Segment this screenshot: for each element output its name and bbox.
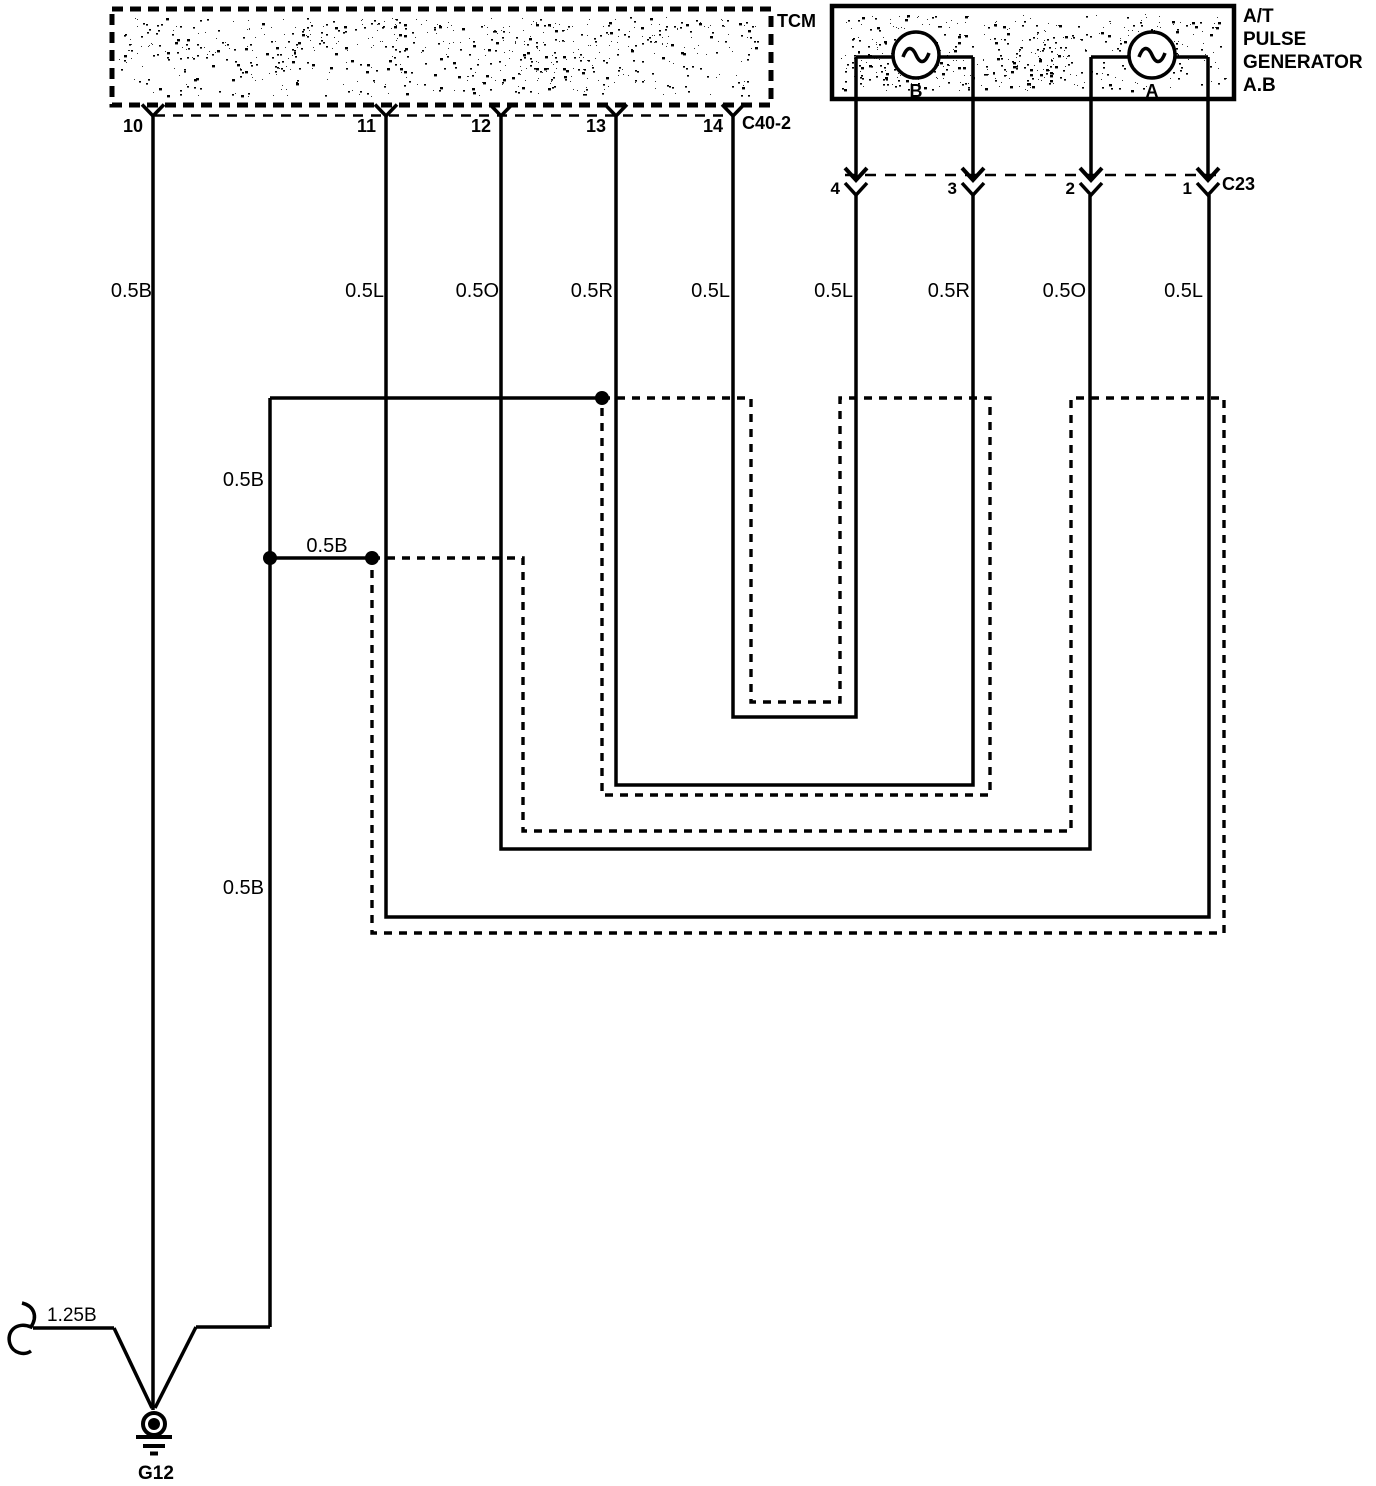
svg-text:14: 14 [703, 116, 723, 136]
TCM control module box [119, 17, 759, 97]
wire 1.25B horizontal [33, 1326, 114, 1330]
connector C40-2 line [155, 114, 731, 117]
wire shield link 0.5B [268, 556, 372, 560]
wire shield bus horizontal 0.5B [270, 396, 602, 400]
wire shield ground vertical 0.5B [268, 558, 272, 1327]
pin 11 of connector C40-2 [375, 105, 397, 117]
svg-text:A: A [1146, 81, 1159, 101]
svg-text:C23: C23 [1222, 174, 1255, 194]
wire continuation squiggle [9, 1303, 34, 1353]
pin 12 of connector C40-2 [490, 105, 512, 117]
wire pin14 to pulse generator pin4 0.5L [733, 116, 856, 717]
wire pin11 to pulse generator pin1 0.5L [386, 116, 1209, 917]
connector C23 line [845, 174, 1218, 177]
svg-text:0.5L: 0.5L [691, 280, 730, 302]
pin 10 of connector C40-2 [142, 105, 164, 117]
svg-text:0.5L: 0.5L [1164, 280, 1203, 302]
pin 14 of connector C40-2 [722, 105, 744, 117]
svg-text:0.5B: 0.5B [223, 469, 264, 491]
svg-text:0.5R: 0.5R [928, 280, 970, 302]
junction node shield left [263, 551, 277, 565]
wire B right lead horizontal [939, 55, 973, 59]
ground G12 [143, 1413, 165, 1435]
wire pin10 0.5B to ground [151, 116, 155, 1410]
svg-text:13: 13 [586, 116, 606, 136]
wire B right lead vertical [971, 57, 975, 180]
pin 2 of connector C23 [1080, 168, 1102, 180]
svg-text:2: 2 [1066, 179, 1075, 198]
svg-text:G12: G12 [138, 1463, 174, 1484]
svg-text:0.5B: 0.5B [306, 535, 347, 557]
svg-text:0.5L: 0.5L [345, 280, 384, 302]
wire pin13 to pulse generator pin3 0.5R [616, 116, 973, 785]
wire A right lead horizontal [1175, 55, 1208, 59]
wire shield ground horizontal [196, 1325, 270, 1329]
wire shield ground diagonal [155, 1327, 196, 1408]
wire A right lead vertical [1206, 57, 1210, 180]
svg-text:PULSE: PULSE [1243, 29, 1306, 50]
wire A left lead vertical [1089, 57, 1093, 180]
wire shield bus vertical upper 0.5B [268, 398, 272, 558]
svg-text:0.5O: 0.5O [1043, 280, 1086, 302]
wire 1.25B diagonal [114, 1328, 152, 1408]
pin 4 of connector C23 [845, 168, 867, 180]
svg-text:3: 3 [948, 179, 957, 198]
AC generator B [893, 32, 939, 78]
svg-text:1: 1 [1183, 179, 1192, 198]
wire B left lead vertical [854, 57, 858, 180]
svg-text:C40-2: C40-2 [742, 113, 791, 133]
pin 1 of connector C23 [1197, 168, 1219, 180]
svg-text:0.5L: 0.5L [814, 280, 853, 302]
wire A left lead horizontal [1091, 55, 1129, 59]
svg-text:GENERATOR: GENERATOR [1243, 52, 1363, 73]
svg-text:10: 10 [123, 116, 143, 136]
svg-text:0.5B: 0.5B [223, 877, 264, 899]
svg-text:A.B: A.B [1243, 75, 1276, 96]
junction node shield link [365, 551, 379, 565]
svg-text:11: 11 [357, 116, 376, 136]
shield loop B dashed [372, 398, 1224, 933]
AC generator A [1129, 32, 1175, 78]
wire pin12 to pulse generator pin2 0.5O [501, 116, 1090, 849]
shield loop A dashed [602, 398, 990, 795]
wire B left lead horizontal [856, 55, 893, 59]
svg-text:B: B [910, 81, 923, 101]
svg-text:0.5R: 0.5R [571, 280, 613, 302]
junction node shield bus [595, 391, 609, 405]
svg-text:TCM: TCM [777, 11, 816, 31]
pin 3 of connector C23 [962, 168, 984, 180]
svg-text:A/T: A/T [1243, 6, 1274, 27]
svg-text:0.5O: 0.5O [456, 280, 499, 302]
A/T pulse generator box [841, 14, 1227, 92]
pin 13 of connector C40-2 [605, 105, 627, 117]
svg-text:4: 4 [831, 179, 841, 198]
svg-text:0.5B: 0.5B [111, 280, 152, 302]
svg-text:1.25B: 1.25B [47, 1305, 97, 1326]
svg-text:12: 12 [471, 116, 491, 136]
